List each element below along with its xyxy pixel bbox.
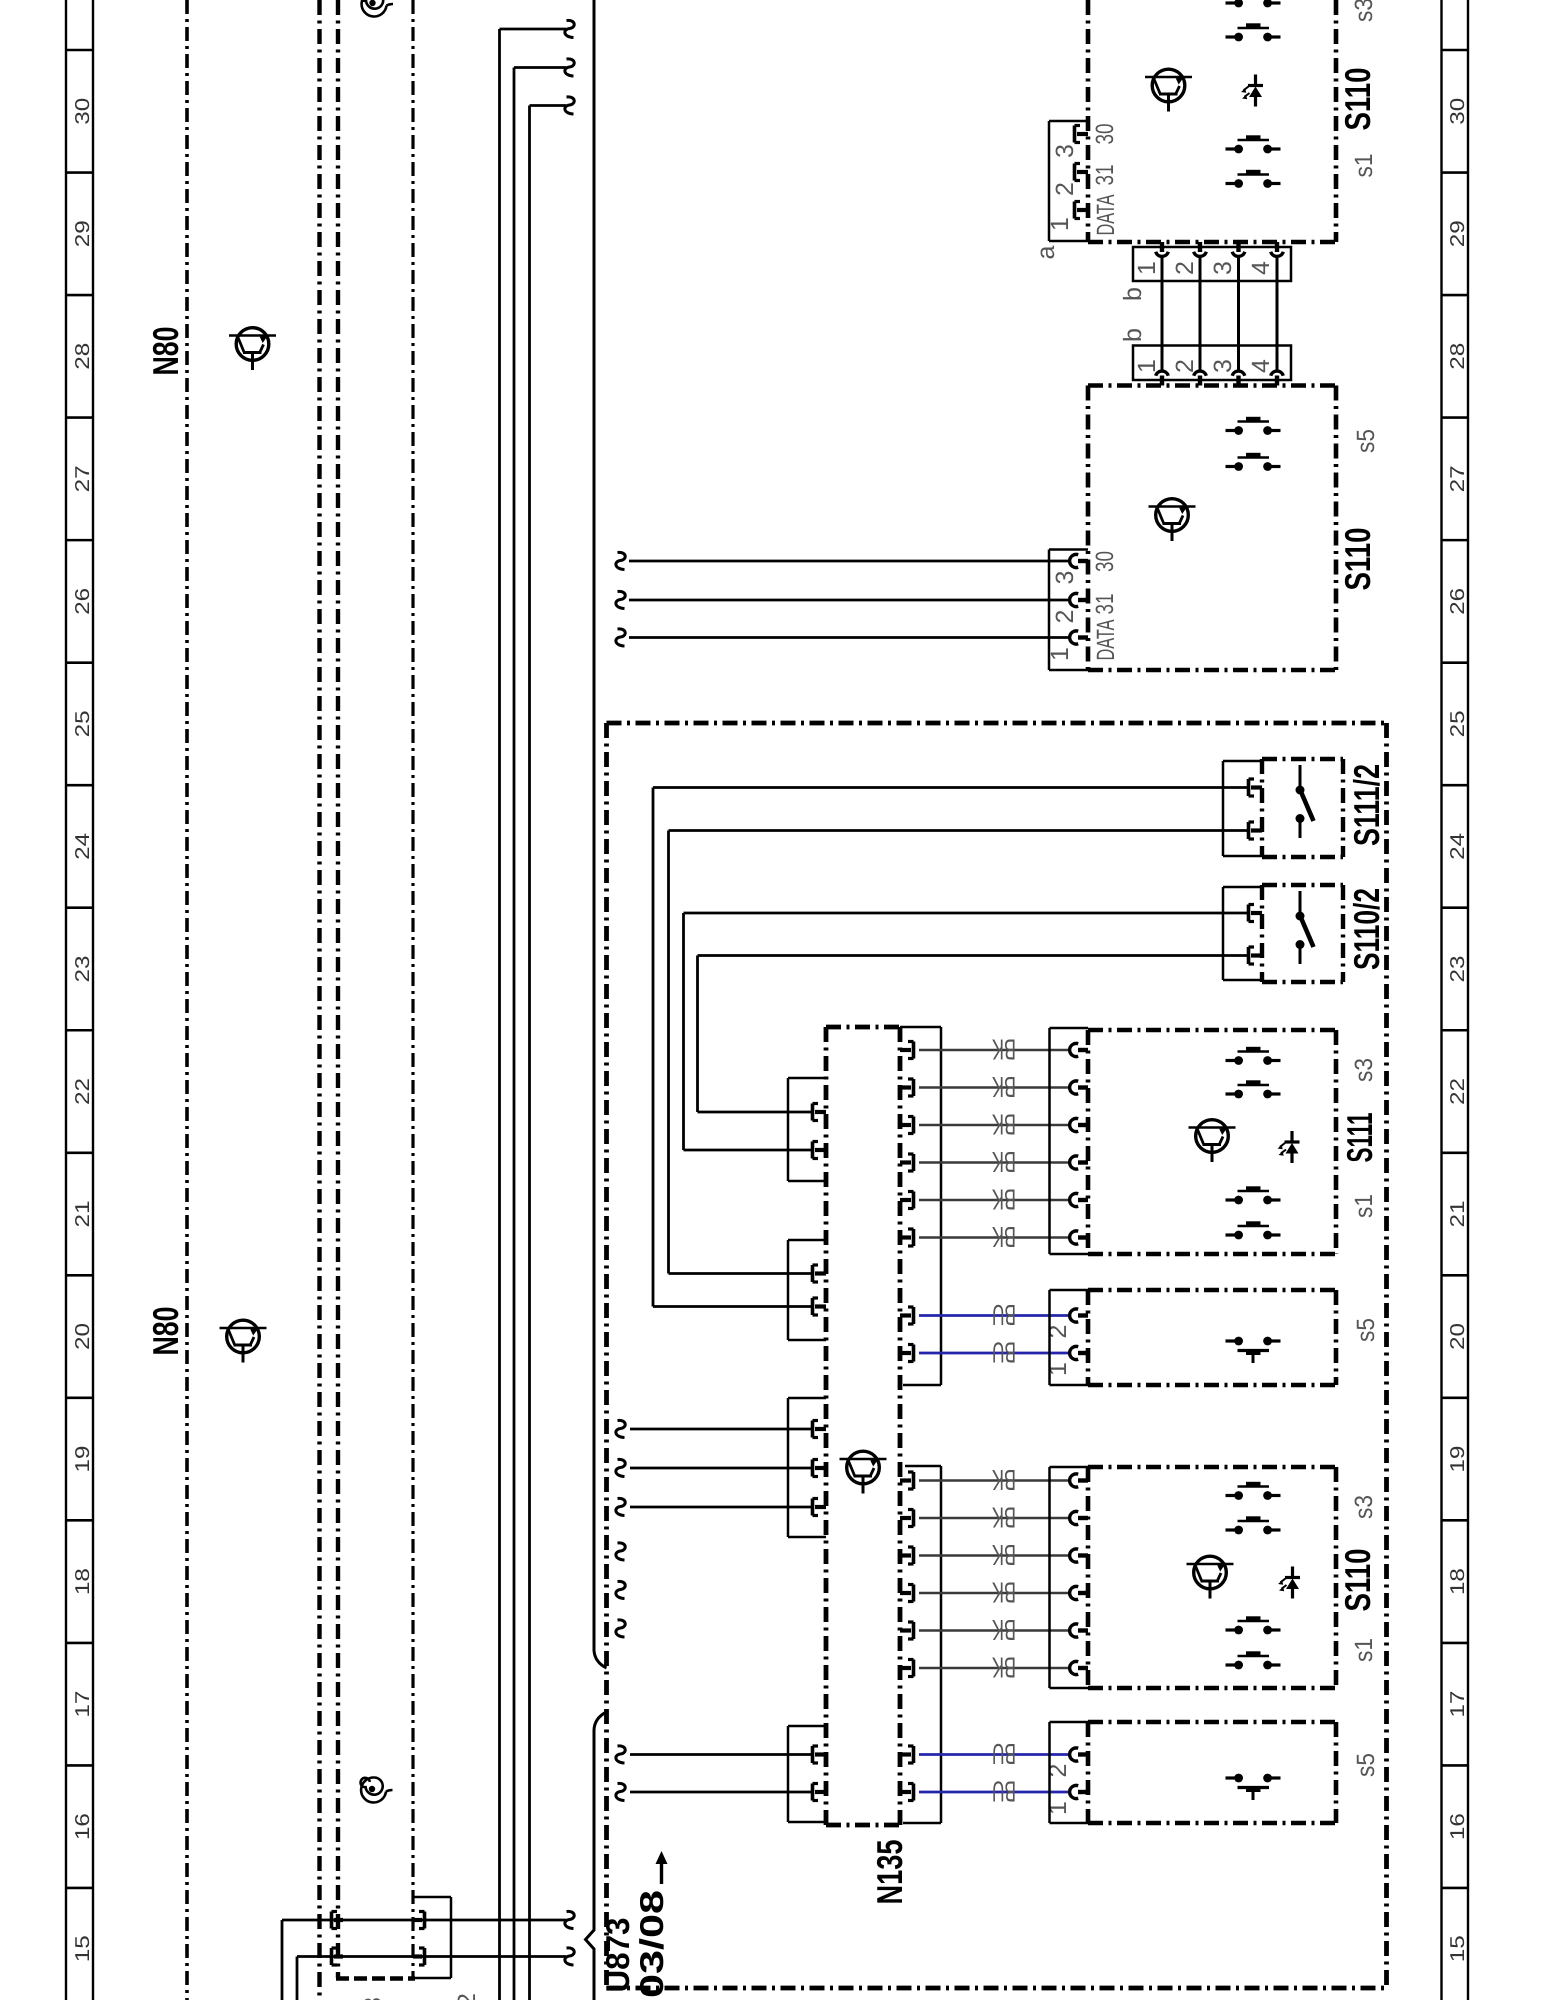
svg-text:30: 30: [72, 98, 94, 125]
pin N135 right (BU 1): [900, 1307, 914, 1324]
switch s3-1 in S110 lower: [1226, 1484, 1281, 1500]
button group S110 box (lower): [1088, 1467, 1336, 1688]
socket S110 (4): [1070, 1586, 1088, 1599]
svg-text:BU: BU: [992, 1298, 1016, 1330]
svg-text:16: 16: [72, 1813, 94, 1840]
svg-text:s3: s3: [1350, 0, 1378, 22]
connector b rectangle: [1133, 346, 1291, 381]
svg-text:BK: BK: [992, 1501, 1016, 1533]
switch contact S111/2: [1296, 765, 1314, 838]
wire (exits page bottom, col 499): [500, 29, 567, 2000]
socket b-2: [1194, 371, 1207, 385]
socket s5 (2): [1070, 1309, 1088, 1322]
pin out of shield (right border, wire A): [413, 1912, 425, 1929]
wire BK 7 (lower group): [919, 1479, 1070, 1482]
wire (exits page bottom, col 529.5): [530, 106, 567, 2000]
pin N135 right (BK 11): [900, 1622, 914, 1639]
wire BK 12 (lower group): [919, 1667, 1070, 1670]
svg-text:1: 1: [1046, 647, 1074, 661]
svg-text:BK: BK: [992, 1108, 1016, 1140]
continuation curl (harness): [616, 1620, 625, 1637]
svg-text:26: 26: [72, 588, 94, 615]
socket S111 (3): [1070, 1118, 1088, 1131]
socket S111 (1): [1070, 1043, 1088, 1056]
connector a rectangle: [1133, 247, 1291, 281]
switch s1-1 in S110 lower: [1226, 1618, 1281, 1634]
pin 30 stub: [1075, 126, 1089, 143]
shielded-cable channel border (dash-dot x=413): [411, 0, 414, 1978]
socket s5#2 (1): [1070, 1785, 1088, 1798]
svg-text:2: 2: [453, 1993, 481, 2000]
svg-text:BK: BK: [992, 1183, 1016, 1215]
svg-text:2: 2: [1044, 1325, 1072, 1339]
socket s5 (1): [1070, 1346, 1088, 1359]
switch s1-2 in S110 lower: [1226, 1653, 1281, 1669]
pin N135 right (BK 9): [900, 1547, 914, 1564]
svg-text:20: 20: [72, 1323, 94, 1350]
socket bracket s5 (S110): [1050, 1722, 1089, 1823]
ruler strip left (grid columns 30..15): [66, 0, 94, 2000]
wire BK 8 (lower group): [919, 1517, 1070, 1520]
LED in S111: [1278, 1131, 1300, 1163]
connector bracket N135 left #2: [788, 1240, 826, 1340]
svg-text:BK: BK: [992, 1220, 1016, 1252]
wire BU 2 (blue): [919, 1352, 1070, 1355]
harness bundle line: [586, 0, 607, 2000]
svg-text:19: 19: [72, 1446, 94, 1473]
N135 pin rectangle lower: [903, 1466, 941, 1823]
svg-text:30: 30: [1091, 124, 1119, 145]
s5 box (S111 side): [1088, 1290, 1336, 1385]
continuation curl: [616, 1498, 625, 1515]
pin at S110/2 (wire2): [1249, 947, 1263, 964]
continuation curl: [616, 1459, 625, 1476]
continuation curl (harness): [616, 1543, 625, 1560]
pin N135 left (1112): [813, 1104, 827, 1121]
continuation curl: [565, 1948, 574, 1965]
switch s1-1 in S111: [1226, 1188, 1281, 1204]
switch s1-2 in S110 top: [1226, 172, 1281, 188]
svg-text:23: 23: [72, 955, 94, 982]
wire BU 4 (blue): [919, 1791, 1070, 1794]
svg-text:22: 22: [1447, 1078, 1469, 1105]
wire from continuation to N135 pin (1754.5): [630, 1753, 811, 1756]
svg-text:31: 31: [1091, 594, 1119, 615]
clock spring N135 box: [826, 1027, 900, 1825]
svg-text:BU: BU: [992, 1336, 1016, 1368]
a-b harness wire 4: [1276, 256, 1279, 372]
svg-text:1: 1: [1046, 217, 1074, 231]
pin at S111/2 (wire2): [1249, 822, 1263, 839]
svg-text:N80: N80: [145, 1307, 186, 1356]
wire to DATA pin 31: [629, 599, 1070, 602]
svg-text:BK: BK: [992, 1033, 1016, 1065]
shield spiral symbol (top, clipped at page edge): [361, 0, 393, 16]
continuation curl: [616, 1783, 625, 1800]
transistor in N135: [840, 1451, 887, 1493]
semiconductor symbol inside N80 (upper): [229, 328, 276, 370]
shield spiral symbol (bottom): [361, 1777, 393, 1802]
svg-text:b: b: [1119, 328, 1147, 342]
switch s3-1 in S110 top: [1226, 0, 1281, 7]
switch s3-2 in S110 lower: [1226, 1518, 1281, 1534]
pin N135 right (BK 7): [900, 1472, 914, 1489]
pin N135 right (BU 2): [900, 1345, 914, 1362]
pin N135 right (BK 2): [900, 1079, 914, 1096]
pin N135 left (1792): [813, 1784, 827, 1801]
svg-text:17: 17: [72, 1691, 94, 1718]
svg-text:s3: s3: [1350, 1495, 1378, 1519]
svg-text:19: 19: [1447, 1446, 1469, 1473]
svg-text:2: 2: [1051, 610, 1079, 624]
continuation curl: [565, 59, 574, 76]
socket b-4: [1271, 371, 1284, 385]
svg-text:3: 3: [1209, 261, 1237, 275]
socket bracket S110: [1050, 1467, 1089, 1688]
wire from continuation to N135 pin (1468): [630, 1467, 811, 1470]
svg-text:1: 1: [1133, 359, 1161, 373]
wire shield-ground B: [297, 1957, 566, 2000]
pin N135 left (1507): [813, 1499, 827, 1516]
wire S110/2 pin1 to N135: [684, 913, 1250, 1150]
pin N135 left (1754.5): [813, 1746, 827, 1763]
wire to DATA pin DATA: [629, 636, 1070, 639]
pin N135 left (1429): [813, 1421, 827, 1438]
wire BK 2 (upper group): [919, 1086, 1070, 1089]
svg-text:2: 2: [1051, 182, 1079, 196]
switch s3-2 in S110 top: [1226, 25, 1281, 41]
socket DATA: [1070, 631, 1088, 644]
svg-text:30: 30: [1447, 98, 1469, 125]
socket S110 (5): [1070, 1624, 1088, 1637]
wire from continuation to N135 pin (1429): [630, 1428, 811, 1431]
LED in S110 top: [1241, 75, 1263, 107]
svg-text:BK: BK: [992, 1613, 1016, 1645]
ruler strip right (grid columns 30..15): [1442, 0, 1470, 2000]
socket S111 (2): [1070, 1081, 1088, 1094]
svg-text:BU: BU: [992, 1775, 1016, 1807]
svg-text:BK: BK: [992, 1576, 1016, 1608]
pin N135 right (BK 6): [900, 1229, 914, 1246]
socket a-4: [1271, 242, 1284, 256]
pin at S111/2 (wire1): [1249, 779, 1263, 796]
wire BU 3 (blue): [919, 1753, 1070, 1756]
button group S111 box: [1088, 1030, 1336, 1254]
svg-text:26: 26: [1447, 588, 1469, 615]
shielded-cable channel border (bold dash-dot x=338): [336, 0, 340, 1978]
svg-text:16: 16: [1447, 1813, 1469, 1840]
svg-text:17: 17: [1447, 1691, 1469, 1718]
transistor in S111: [1189, 1120, 1236, 1162]
horn switch S110/2 box: [1262, 885, 1343, 982]
svg-text:03/08: 03/08: [633, 1890, 670, 1998]
svg-text:2: 2: [1171, 261, 1199, 275]
svg-text:31: 31: [1091, 165, 1119, 186]
wire BU 1 (blue): [919, 1314, 1070, 1317]
svg-text:1: 1: [1133, 261, 1161, 275]
switch s3-2 in S111: [1226, 1082, 1281, 1098]
pin N135 right (BU 3): [900, 1746, 914, 1763]
svg-text:27: 27: [1447, 465, 1469, 492]
socket 31: [1070, 593, 1088, 606]
ECU N80 box border (dash-dot line x=187): [185, 0, 189, 2000]
svg-text:27: 27: [72, 465, 94, 492]
svg-text:30: 30: [1091, 551, 1119, 572]
switch s5-2 in S110 #2: [1226, 455, 1281, 471]
connector bracket S110/2: [1223, 887, 1262, 980]
a-b harness wire 1: [1161, 256, 1164, 372]
pin into shield (left border, wire B): [332, 1948, 344, 1965]
wire BK 9 (lower group): [919, 1554, 1070, 1557]
svg-text:BU: BU: [992, 1737, 1016, 1769]
wire BK 10 (lower group): [919, 1592, 1070, 1595]
svg-text:20: 20: [1447, 1323, 1469, 1350]
pin N135 left (1150): [813, 1142, 827, 1159]
svg-text:BK: BK: [992, 1145, 1016, 1177]
pin N135 left (1306.5): [813, 1298, 827, 1315]
switch contact S110/2: [1296, 891, 1314, 964]
connector bracket N135 left #4: [788, 1726, 826, 1822]
socket S110 (3): [1070, 1549, 1088, 1562]
LED in S110 lower: [1278, 1567, 1300, 1599]
svg-text:S111: S111: [1339, 1113, 1380, 1163]
continuation curl: [565, 20, 574, 37]
continuation curl: [565, 97, 574, 114]
pin N135 right (BK 8): [900, 1510, 914, 1527]
svg-text:DATA: DATA: [1092, 619, 1120, 660]
pin N135 right (BK 10): [900, 1585, 914, 1602]
wire shield-ground A: [282, 1920, 566, 2000]
svg-text:4: 4: [1247, 359, 1275, 373]
svg-text:S110: S110: [1337, 528, 1378, 591]
svg-text:N135: N135: [869, 1840, 910, 1905]
horn switch S111/2 box: [1262, 759, 1343, 857]
svg-text:N80: N80: [145, 327, 186, 376]
svg-text:15: 15: [1447, 1935, 1469, 1962]
pin out of shield (right border, wire B): [413, 1948, 425, 1965]
switch s1-2 in S111: [1226, 1223, 1281, 1239]
pin DATA stub: [1075, 202, 1089, 219]
wire BK 5 (upper group): [919, 1199, 1070, 1202]
connector bracket S111/2: [1223, 761, 1262, 856]
svg-text:25: 25: [72, 710, 94, 737]
socket a-3: [1232, 242, 1245, 256]
wire from continuation to N135 pin (1792): [630, 1791, 811, 1794]
socket S111 (4): [1070, 1156, 1088, 1169]
pin at S110/2 (wire1): [1249, 905, 1263, 922]
continuation curl: [616, 629, 625, 646]
svg-text:s5: s5: [1352, 1753, 1380, 1777]
ECU N80 box border (bold dash-dot line x=319.5): [317, 0, 321, 2000]
svg-text:s3: s3: [1350, 1058, 1378, 1082]
arrow (to coordinate 03/08): [656, 1851, 668, 1884]
svg-text:s1: s1: [1350, 154, 1378, 178]
svg-text:29: 29: [1447, 220, 1469, 247]
DATA connector bracket on S110 #2: [1049, 550, 1088, 671]
svg-text:s1: s1: [1350, 1194, 1378, 1218]
svg-text:3: 3: [1051, 571, 1079, 585]
switch s5 (S110 side): [1226, 1774, 1281, 1800]
pin N135 right (BK 3): [900, 1117, 914, 1134]
socket b-1: [1156, 371, 1169, 385]
switch s1-1 in S110 top: [1226, 137, 1281, 153]
pin N135 right (BK 12): [900, 1660, 914, 1677]
DATA connector bracket on S110 top box: [1049, 121, 1088, 241]
svg-text:21: 21: [72, 1201, 94, 1228]
svg-text:28: 28: [1447, 343, 1469, 370]
svg-text:S110: S110: [1337, 1549, 1378, 1612]
svg-text:28: 28: [72, 343, 94, 370]
svg-text:s1: s1: [1350, 1638, 1378, 1662]
svg-text:S111/2: S111/2: [1346, 764, 1387, 846]
svg-text:18: 18: [1447, 1568, 1469, 1595]
transistor in S110 lower: [1187, 1556, 1234, 1598]
switch s5-1 in S110 #2: [1226, 419, 1281, 435]
connector bracket N135 left #3: [788, 1398, 826, 1537]
transistor in S110 #2: [1149, 499, 1196, 541]
svg-text:BK: BK: [992, 1070, 1016, 1102]
svg-text:BK: BK: [992, 1651, 1016, 1683]
svg-text:3: 3: [1209, 359, 1237, 373]
svg-text:BK: BK: [992, 1463, 1016, 1495]
socket S110 (2): [1070, 1511, 1088, 1524]
svg-text:1: 1: [1044, 1362, 1072, 1376]
socket a-1: [1156, 242, 1169, 256]
pin N135 left (1273.5): [813, 1265, 827, 1282]
svg-text:2: 2: [1044, 1764, 1072, 1778]
wire BK 11 (lower group): [919, 1629, 1070, 1632]
socket a-2: [1194, 242, 1207, 256]
continuation curl (harness): [616, 1581, 625, 1598]
pin N135 right (BK 4): [900, 1154, 914, 1171]
svg-text:1: 1: [1044, 1801, 1072, 1815]
socket S110 (6): [1070, 1661, 1088, 1674]
wire BK 1 (upper group): [919, 1049, 1070, 1052]
svg-text:a: a: [1032, 245, 1060, 259]
svg-text:29: 29: [72, 220, 94, 247]
pin into shield (left border, wire A): [332, 1912, 344, 1929]
socket S111 (5): [1070, 1193, 1088, 1206]
socket s5#2 (2): [1070, 1748, 1088, 1761]
svg-text:21: 21: [1447, 1201, 1469, 1228]
socket bracket S111: [1050, 1028, 1089, 1254]
switch s5 (S111 side): [1226, 1337, 1281, 1363]
button group S110 box (second): [1088, 386, 1336, 671]
wire S110/2 pin2 to N135: [698, 956, 1250, 1113]
wire BK 4 (upper group): [919, 1161, 1070, 1164]
N135 pin rectangle upper: [900, 1027, 941, 1385]
socket 30: [1070, 554, 1088, 567]
svg-text:2: 2: [1171, 359, 1199, 373]
transistor in S110 top: [1145, 69, 1192, 111]
svg-text:U873: U873: [599, 1918, 636, 1993]
pin N135 left (1468): [813, 1460, 827, 1477]
svg-text:DATA: DATA: [1092, 194, 1120, 235]
wire (exits page bottom, col 514): [514, 68, 566, 2000]
svg-text:s5: s5: [1352, 1318, 1380, 1342]
svg-text:s5: s5: [1352, 429, 1380, 453]
svg-text:S110/2: S110/2: [1346, 888, 1387, 970]
connector bracket N135 left #1: [788, 1078, 826, 1181]
shielded-cable channel end cap: [336, 1976, 415, 1980]
continuation curl: [565, 1911, 574, 1928]
button group S110 box (top, clipped): [1088, 0, 1336, 242]
socket S110 (1): [1070, 1474, 1088, 1487]
wire BK 3 (upper group): [919, 1124, 1070, 1127]
a-b harness wire 2: [1199, 256, 1202, 372]
pin N135 right (BU 4): [900, 1784, 914, 1801]
socket bracket s5 (S111): [1050, 1290, 1089, 1385]
svg-text:15: 15: [72, 1935, 94, 1962]
wire S111/2 pin1 to N135: [653, 788, 1249, 1307]
pin 31 stub: [1075, 164, 1089, 181]
semiconductor symbol inside N80 (lower): [220, 1320, 267, 1362]
svg-text:3: 3: [1051, 144, 1079, 158]
switch s3-1 in S111: [1226, 1049, 1281, 1065]
continuation curl: [616, 552, 625, 569]
svg-text:24: 24: [1447, 833, 1469, 860]
socket S111 (6): [1070, 1231, 1088, 1244]
svg-text:4: 4: [1247, 261, 1275, 275]
wire from continuation to N135 pin (1507): [630, 1506, 811, 1509]
socket b-3: [1232, 371, 1245, 385]
svg-text:22: 22: [72, 1078, 94, 1105]
svg-text:23: 23: [1447, 955, 1469, 982]
svg-text:18: 18: [72, 1568, 94, 1595]
connector bracket at shield (right): [413, 1897, 451, 1978]
continuation curl: [616, 591, 625, 608]
svg-text:b: b: [1119, 287, 1147, 301]
s5 box (S110 side): [1088, 1722, 1336, 1823]
continuation curl: [616, 1420, 625, 1437]
svg-text:25: 25: [1447, 710, 1469, 737]
svg-text:24: 24: [72, 833, 94, 860]
a-b harness wire 3: [1237, 256, 1240, 372]
steering wheel unit U873 box: [607, 723, 1389, 1988]
continuation curl: [616, 1746, 625, 1763]
wire to DATA pin 30: [629, 560, 1070, 563]
svg-text:BK: BK: [992, 1538, 1016, 1570]
pin N135 right (BK 1): [900, 1042, 914, 1059]
pin N135 right (BK 5): [900, 1192, 914, 1209]
wire S111/2 pin2 to N135: [669, 831, 1250, 1274]
svg-text:S110: S110: [1337, 68, 1378, 131]
wire BK 6 (upper group): [919, 1236, 1070, 1239]
